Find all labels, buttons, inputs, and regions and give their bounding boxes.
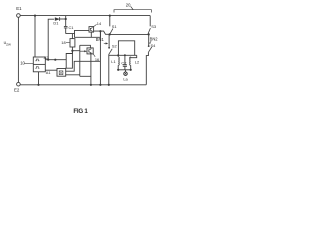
capacitor C2 bbox=[123, 55, 127, 70]
svg-text:S3: S3 bbox=[151, 24, 156, 29]
junction dot S2 bus bbox=[108, 84, 110, 86]
arrow BN1 pointer bbox=[104, 42, 106, 44]
svg-text:La: La bbox=[123, 77, 128, 82]
junction dot T2 bus bbox=[90, 84, 92, 86]
svg-text:A2: A2 bbox=[44, 55, 49, 60]
wire from top bus down to box 10 bbox=[34, 16, 36, 57]
inductor L2 bbox=[131, 55, 137, 57]
junction dot L2 bottom bbox=[130, 69, 132, 71]
junction dot A2 row bbox=[47, 59, 49, 61]
wire A2 row bbox=[45, 59, 66, 61]
label 16 leader bbox=[93, 54, 95, 57]
junction dot L1 top bbox=[117, 54, 119, 56]
wire fork right riser to T2 top bbox=[72, 45, 90, 76]
wire bottom bus bbox=[20, 84, 146, 86]
wire A1 row bbox=[45, 69, 57, 71]
switch S4 bbox=[148, 34, 150, 45]
wire fork left to box 12 bbox=[66, 51, 72, 69]
svg-text:C2: C2 bbox=[121, 60, 126, 65]
junction dot L1 bottom bbox=[117, 69, 119, 71]
svg-text:S2: S2 bbox=[112, 43, 117, 48]
wire fork center down bbox=[66, 51, 73, 69]
capacitor C1 bbox=[64, 19, 68, 34]
junction dot BN1 node top bbox=[109, 33, 111, 35]
svg-text:A1: A1 bbox=[46, 70, 51, 75]
junction dot resistor bottom bbox=[71, 50, 73, 52]
node E2 terminal circle bbox=[17, 82, 21, 86]
svg-text:ZW: ZW bbox=[6, 43, 11, 47]
wire box10 bottom to bus bbox=[38, 72, 40, 85]
driver box 12 bbox=[57, 69, 66, 77]
svg-text:E2: E2 bbox=[14, 88, 20, 93]
resistor 18 bbox=[70, 39, 75, 47]
wire box12 out upper bbox=[66, 61, 101, 71]
svg-text:10: 10 bbox=[20, 61, 25, 66]
junction dot half-bridge mid bbox=[99, 30, 101, 32]
svg-text:L1: L1 bbox=[111, 59, 115, 64]
wire bridge over transformer windings bbox=[118, 41, 134, 56]
wire stub C1 node up to top bus bbox=[65, 16, 67, 19]
transistor box 16 (T2) bbox=[87, 48, 93, 54]
wire D1 branch: corner from D1 row down to A2 row bbox=[48, 19, 54, 59]
diode D1 bbox=[55, 18, 59, 21]
label 10 leader bbox=[24, 62, 33, 64]
wire half-bridge mid down to bus bbox=[99, 31, 101, 85]
transistor box 14 (T1) bbox=[89, 27, 94, 32]
junction dot C2 top bbox=[124, 54, 126, 56]
wire box12 out lower bbox=[66, 75, 91, 77]
dimension bracket 20 bbox=[114, 6, 151, 12]
wire winding bottom tie bbox=[118, 69, 131, 71]
svg-text:S1: S1 bbox=[112, 24, 117, 29]
svg-text:C1: C1 bbox=[69, 25, 74, 30]
junction dot A2 row mid bbox=[54, 59, 56, 61]
switch S2 bbox=[108, 34, 110, 47]
wire left bus E1 to E2 bbox=[17, 17, 19, 82]
svg-text:BN2: BN2 bbox=[150, 36, 159, 41]
svg-text:16: 16 bbox=[95, 57, 99, 62]
label 14 leader bbox=[94, 24, 97, 26]
wire BN row BN1 to BN2 bbox=[110, 33, 149, 35]
wire box T1 left input bbox=[75, 30, 90, 33]
inductor L1 bbox=[117, 55, 119, 57]
svg-text:14: 14 bbox=[97, 21, 102, 26]
wire C1 bottom to right jog bbox=[66, 31, 101, 37]
svg-text:S4: S4 bbox=[151, 43, 157, 48]
wire S4 bottom to bus right end bbox=[146, 52, 148, 85]
junction dot top bus S1 bbox=[109, 15, 111, 17]
control box 10 bbox=[33, 57, 45, 72]
junction dot top bus x35 bbox=[34, 15, 36, 17]
switch S1 bbox=[109, 16, 111, 27]
junction dot C1 top node bbox=[65, 18, 67, 20]
wire T2 emitter to bus bbox=[90, 54, 92, 85]
svg-text:20: 20 bbox=[126, 2, 131, 7]
wire S2 bottom to lamp loop and bus bbox=[109, 54, 137, 85]
node E1 terminal circle bbox=[17, 14, 21, 18]
wire top bus right corner down to S3 bbox=[149, 16, 151, 27]
arrow into T2 base bbox=[80, 50, 85, 52]
svg-text:BN1: BN1 bbox=[96, 37, 105, 42]
svg-text:18: 18 bbox=[61, 40, 65, 45]
wire T1 output to S1 contact bbox=[94, 31, 110, 34]
wire top bus bbox=[20, 15, 150, 17]
svg-text:D1: D1 bbox=[53, 21, 58, 26]
junction dot mid bus bbox=[99, 84, 101, 86]
switch S3 bbox=[148, 28, 150, 34]
wire T1 bottom stub bbox=[90, 32, 92, 37]
junction dot box10 bus bbox=[37, 84, 39, 86]
arrow BN2 pointer bbox=[150, 41, 151, 42]
wire D1 to C1 node bbox=[60, 18, 66, 20]
junction dot BN2 node top bbox=[148, 33, 150, 35]
wire resistor bottom bbox=[71, 47, 73, 51]
lamp La bbox=[125, 70, 127, 72]
svg-text:E1: E1 bbox=[16, 6, 22, 11]
svg-text:FIG 1: FIG 1 bbox=[73, 108, 88, 115]
svg-text:L2: L2 bbox=[135, 59, 139, 64]
